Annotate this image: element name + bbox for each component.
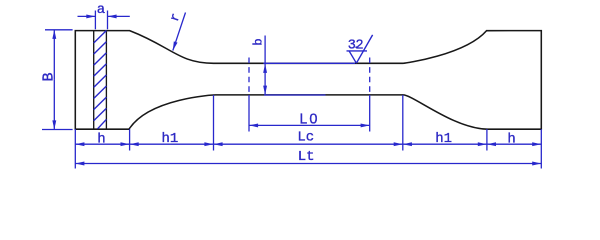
dimension B extension line bottom	[42, 129, 73, 131]
extension line x=541.3 for h and Lt	[540, 129, 542, 168]
svg-text:L: L	[299, 113, 308, 129]
dimension a extension line left	[94, 11, 96, 30]
L0 gauge mark right solid part	[369, 95, 371, 132]
L0 gauge mark right dashed part	[369, 58, 371, 96]
svg-text:r: r	[167, 11, 184, 23]
svg-text:h1: h1	[161, 131, 178, 147]
dimension b extension above gauge	[264, 36, 266, 64]
dimension B dim line upper half	[53, 30, 55, 80]
specimen outline (dog-bone)	[75, 31, 541, 130]
svg-text:B: B	[40, 72, 57, 81]
dim Lc arrows	[214, 143, 309, 145]
svg-text:h: h	[97, 131, 105, 147]
dim h1 right arrows	[403, 143, 445, 145]
dim h left arrows	[75, 143, 102, 145]
svg-text:Lt: Lt	[298, 149, 315, 165]
extension line x=75.3 for h and Lt	[74, 129, 76, 168]
L0 dim line left arrow	[249, 124, 309, 126]
blue overlay segment on gauge top line	[263, 62, 355, 64]
label 3.2 dot	[355, 46, 357, 48]
svg-text:b: b	[251, 38, 265, 45]
blue overlay segment on gauge bottom line	[264, 94, 326, 96]
dimension b arrow up	[264, 64, 266, 79]
hatch lines	[94, 31, 107, 129]
dim h1 left arrows	[130, 143, 172, 145]
dim Lt arrows	[75, 163, 308, 165]
extension line x=213.5 between h1 and Lc	[213, 95, 215, 151]
dimension a extension line right	[107, 11, 109, 30]
svg-text:h1: h1	[435, 131, 452, 147]
svg-text:0: 0	[309, 112, 317, 128]
surface finish symbol slash leg	[356, 35, 372, 63]
L0 gauge mark left solid part	[248, 95, 250, 132]
extension line x=402.8 between Lc and h1	[402, 95, 404, 151]
cross-section strip right edge	[105, 31, 107, 130]
cross-section strip left edge	[93, 31, 95, 130]
L0 dim line right arrow	[309, 124, 370, 126]
surface finish symbol bar	[347, 50, 368, 52]
dimension a dim line left	[78, 15, 96, 17]
L0 gauge mark left dashed part	[248, 58, 250, 96]
extension line x=129.6 between h and h1	[129, 129, 131, 150]
surface finish symbol left leg	[349, 51, 356, 63]
dimension B dim line lower half	[53, 80, 55, 130]
extension line x=486.9 between h1 and h	[486, 129, 488, 150]
svg-text:a: a	[97, 2, 105, 18]
svg-text:Lc: Lc	[297, 129, 314, 145]
svg-text:h: h	[507, 131, 515, 147]
dimension a dim line right	[108, 15, 130, 17]
dimension b arrow down	[264, 79, 266, 95]
dim h right arrows	[487, 143, 514, 145]
dimension B extension line top	[45, 29, 73, 31]
leader line r	[173, 13, 186, 51]
svg-text:2: 2	[356, 38, 364, 53]
